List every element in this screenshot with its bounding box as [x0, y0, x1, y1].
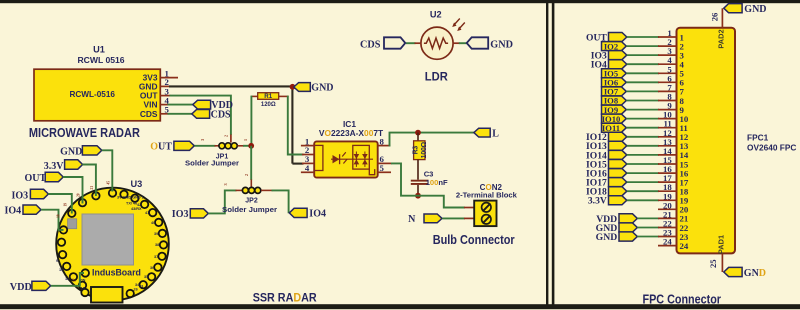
svg-text:PAD1: PAD1 — [717, 235, 726, 254]
svg-text:37: 37 — [154, 255, 158, 259]
svg-text:42: 42 — [137, 203, 141, 207]
svg-text:PAD2: PAD2 — [717, 29, 726, 48]
FPC pin 9 IO9 — [602, 101, 685, 115]
wire IO4 flag to U3 pad — [41, 210, 64, 230]
FPC pin 3 IO3 — [591, 46, 685, 61]
wire U1 pin2 to GND (black net) — [160, 86, 314, 164]
svg-text:40: 40 — [151, 221, 155, 225]
FPC pin 8 IO8 — [602, 92, 685, 106]
FPC pin 6 IO6 — [602, 73, 685, 87]
U3 wire pin-number marks — [57, 181, 111, 282]
wire U1 pin4 to VDD flag — [160, 104, 193, 106]
wire CDS flag to LDR — [406, 42, 421, 44]
op-to SSR IC1 VO2223A-X007T — [314, 119, 384, 178]
svg-text:U2: U2 — [430, 9, 442, 19]
svg-text:17: 17 — [73, 278, 77, 282]
LDR light arrows — [452, 19, 465, 32]
IC1 pin1 stub — [301, 145, 315, 147]
svg-text:OUT: OUT — [25, 173, 47, 184]
junction dot R3 top — [415, 130, 421, 136]
svg-text:OV2640 FPC: OV2640 FPC — [747, 143, 796, 153]
svg-text:33: 33 — [139, 285, 143, 289]
svg-text:3V GND GND 1: 3V GND GND 1 — [117, 196, 144, 200]
wire U1 pin5 to CDS flag — [160, 113, 192, 115]
GND flag (to U3) — [60, 146, 102, 158]
svg-text:N: N — [408, 214, 416, 225]
FPC pin 5 IO5 — [602, 64, 685, 78]
FPC pin 11 IO11 — [602, 119, 688, 133]
svg-text:20: 20 — [77, 193, 81, 197]
svg-text:21: 21 — [90, 186, 94, 190]
svg-text:RCWL-0516: RCWL-0516 — [69, 90, 115, 99]
svg-text:VDD: VDD — [10, 282, 32, 293]
svg-text:R3: R3 — [412, 146, 419, 155]
label OUT flag (to JP1) — [150, 141, 194, 152]
section divider double rule — [546, 3, 554, 305]
svg-text:IO3: IO3 — [12, 190, 29, 201]
U1 pin numbers 1-5 — [165, 68, 170, 114]
svg-text:18: 18 — [57, 214, 61, 218]
svg-text:Bulb Connector: Bulb Connector — [433, 232, 515, 247]
FPC pin 17 IO17 — [586, 173, 689, 188]
N flag — [408, 214, 442, 225]
capacitor C3 100nF — [411, 160, 448, 196]
wire GND flag to U3 top pad — [102, 150, 113, 191]
GND flag (top middle) — [294, 83, 334, 94]
IC1 pin5 stub — [378, 171, 391, 173]
U3 bottom connector — [91, 287, 123, 303]
svg-text:10: 10 — [59, 268, 63, 272]
wire IO3 flag to JP2 left pad — [208, 183, 242, 213]
FPC pin 20 (nc) — [658, 200, 689, 214]
FPC pin 15 IO15 — [586, 155, 689, 170]
FPC pin 24 (nc) — [658, 237, 689, 251]
U1 pin 1 stub (unconnected) — [160, 77, 178, 79]
resistor R3 100ohm — [412, 133, 428, 160]
3.3V flag (to U3) — [44, 160, 83, 172]
solder jumper JP1 — [185, 143, 239, 168]
svg-text:IO3: IO3 — [172, 209, 189, 220]
svg-text:LDR: LDR — [425, 69, 448, 83]
solder jumper JP2 — [222, 187, 277, 214]
svg-text:24: 24 — [680, 241, 689, 251]
GND flag (pale, right of LDR) — [467, 37, 513, 50]
svg-text:TX/ 46: TX/ 46 — [126, 202, 137, 206]
svg-text:120Ω: 120Ω — [261, 102, 276, 108]
svg-text:26: 26 — [710, 12, 720, 21]
svg-text:36: 36 — [150, 266, 154, 270]
svg-text:GND: GND — [490, 39, 513, 50]
CDS flag (below VDD) — [192, 110, 231, 121]
svg-text:9: 9 — [56, 259, 58, 263]
svg-text:3: 3 — [223, 183, 228, 185]
svg-text:2-Terminal Block: 2-Terminal Block — [456, 191, 518, 200]
FPC pin 18 IO18 — [586, 182, 689, 197]
bottom border rule — [0, 304, 800, 309]
svg-text:IndusBoard: IndusBoard — [92, 268, 141, 278]
svg-text:RCWL 0516: RCWL 0516 — [77, 55, 124, 65]
FPC pin 7 IO7 — [602, 82, 685, 96]
svg-text:JP2: JP2 — [245, 198, 258, 205]
OUT flag (to U3) — [25, 172, 64, 184]
svg-text:GND: GND — [596, 232, 618, 243]
IC U1 RCWL-0516 microwave radar module — [34, 45, 160, 121]
module U3 IndusBoard (round) — [56, 179, 169, 300]
IC1 left pin numbers — [305, 136, 310, 173]
FPC pin 4 IO4 — [591, 55, 685, 70]
svg-text:Solder Jumper: Solder Jumper — [185, 159, 239, 168]
svg-text:IO4: IO4 — [309, 209, 326, 220]
svg-text:Solder Jumper: Solder Jumper — [222, 205, 277, 214]
junction dot C3 bottom — [415, 193, 421, 199]
svg-text:41: 41 — [145, 211, 149, 215]
svg-text:GND: GND — [60, 147, 82, 158]
terminal block CON2 — [456, 183, 518, 226]
FPC pin 16 IO16 — [586, 164, 689, 179]
FPC pin 22 GND — [596, 219, 689, 234]
CDS flag (pale) — [360, 37, 405, 50]
FPC pin 19 3.3V — [588, 191, 689, 206]
svg-text:GND: GND — [744, 268, 766, 279]
wire OUT flag to JP1 — [195, 139, 219, 146]
svg-text:11: 11 — [65, 277, 69, 281]
wire N flag to CON2 terminal 2 — [442, 217, 474, 219]
svg-text:GND: GND — [744, 4, 766, 15]
FPC pin 26 to GND — [710, 8, 723, 27]
svg-text:GND: GND — [311, 83, 333, 94]
wire JP2 right pad to IO4 flag — [261, 190, 289, 213]
svg-text:CDS: CDS — [360, 39, 381, 50]
svg-text:U1: U1 — [93, 45, 105, 55]
GND flag (FPC bottom) — [724, 267, 766, 279]
wire node down to JP2 center — [244, 146, 251, 187]
svg-text:VO2223A-X007T: VO2223A-X007T — [319, 128, 384, 138]
GND flag (FPC top) — [724, 4, 767, 15]
wire U1 pin3 OUT to JP1 center — [160, 96, 231, 143]
U3 ring pads — [58, 189, 167, 297]
wire R1 right lead to IC1 pin2 — [279, 96, 315, 155]
VDD flag — [193, 100, 233, 111]
top border rule — [0, 0, 800, 3]
svg-text:43/RX: 43/RX — [131, 207, 142, 211]
svg-text:FPC Connector: FPC Connector — [643, 292, 722, 307]
junction dot GND node — [290, 84, 296, 90]
svg-text:MICROWAVE RADAR: MICROWAVE RADAR — [29, 126, 140, 140]
svg-text:OUT: OUT — [150, 142, 172, 153]
svg-text:FPC1: FPC1 — [747, 133, 769, 143]
L flag — [474, 128, 499, 139]
IO4 flag (to U3) — [5, 205, 42, 216]
wire R1 left lead down to JP1/JP2 node — [251, 96, 258, 146]
svg-text:R1: R1 — [264, 93, 272, 100]
wire IC1 pin6 to CON2 terminal 1 — [378, 163, 475, 207]
svg-text:3: 3 — [200, 139, 205, 141]
svg-text:2: 2 — [224, 135, 229, 137]
wire LDR to GND flag — [453, 42, 467, 44]
label IO3 flag (to JP2) — [172, 209, 209, 220]
FPC pin 12 IO12 — [586, 128, 689, 143]
resistor R1 — [258, 93, 279, 108]
svg-text:3.3V: 3.3V — [44, 161, 65, 172]
wire JP1 right pad to node — [238, 139, 252, 146]
photoresistor U2 LDR — [421, 9, 453, 59]
FPC pin 21 VDD — [596, 209, 688, 224]
svg-text:24: 24 — [663, 237, 672, 247]
FPC pin 1 OUT — [586, 28, 684, 43]
svg-text:38: 38 — [155, 243, 159, 247]
svg-text:25: 25 — [708, 259, 718, 268]
svg-text:3.3V: 3.3V — [588, 196, 607, 207]
wire VDD flag to U3 VIN pad — [51, 273, 84, 286]
FPC pin 14 IO14 — [586, 146, 689, 161]
svg-text:IO4: IO4 — [5, 205, 22, 216]
svg-text:U3: U3 — [131, 179, 143, 189]
FPC pin 25 to GND — [708, 253, 722, 272]
svg-text:45: 45 — [107, 181, 111, 185]
FPC pin 13 IO13 — [586, 137, 689, 152]
svg-text:100Ω: 100Ω — [421, 141, 428, 158]
svg-text:39: 39 — [154, 232, 158, 236]
svg-text:L: L — [492, 128, 499, 139]
U3 tiny pad labels — [56, 196, 159, 292]
IC1 pin4 stub — [301, 171, 315, 173]
svg-text:CDS: CDS — [140, 109, 158, 119]
wire OUT flag to U3 pad — [63, 177, 83, 204]
wire IO3 flag to U3 pad — [48, 194, 72, 214]
FPC pin 23 GND — [596, 228, 689, 243]
svg-text:18: 18 — [81, 287, 85, 291]
svg-text:2: 2 — [244, 174, 249, 176]
svg-text:100nF: 100nF — [426, 178, 448, 187]
FPC pin 2 IO2 — [602, 37, 685, 51]
wire 3.3V flag to U3 pad — [82, 165, 96, 197]
IO4 flag (points left) — [289, 208, 326, 219]
svg-text:35: 35 — [144, 275, 148, 279]
IO3 flag (to U3) — [12, 189, 49, 201]
svg-text:19: 19 — [64, 203, 68, 207]
svg-text:SSR RADAR: SSR RADAR — [253, 291, 317, 305]
FPC pin 10 IO10 — [602, 110, 689, 124]
IC1 right pin numbers 8,6,5 — [380, 136, 385, 173]
svg-text:1: 1 — [243, 139, 248, 141]
svg-text:26: 26 — [134, 288, 138, 292]
connector FPC1 OV2640 FPC body — [677, 28, 797, 254]
junction dot JP1/JP2/R1 node — [248, 143, 254, 149]
svg-text:CDS: CDS — [211, 110, 231, 121]
wire IC1 pin8 up to L net — [378, 133, 474, 147]
VDD flag (to U3) — [10, 281, 51, 293]
